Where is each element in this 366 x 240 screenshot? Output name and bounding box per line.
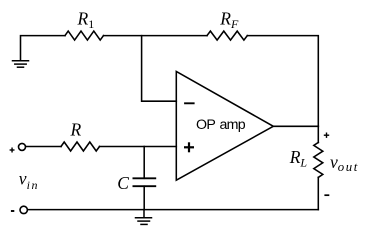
sign + at vout top	[324, 133, 329, 138]
resistor RF	[207, 31, 247, 40]
sign - at vout bottom	[324, 194, 329, 196]
wire top-right to right rail	[247, 36, 318, 127]
ground (top-left)	[13, 61, 29, 67]
sign - at input terminal	[11, 210, 14, 212]
svg-text:OP amp: OP amp	[196, 117, 246, 133]
op-amp minus input sign	[184, 102, 195, 104]
terminal - (input, open circle)	[20, 206, 27, 213]
wire R to op-amp plus input	[100, 146, 177, 148]
wire right rail below RL	[317, 177, 319, 209]
wire right rail above RL	[317, 126, 319, 142]
wire output	[273, 125, 318, 127]
wire top middle (R1 to RF)	[104, 35, 208, 37]
resistor R	[61, 142, 100, 151]
resistor RL	[314, 143, 323, 178]
svg-text:R: R	[70, 120, 82, 140]
wire noninverting input (terminal to R)	[26, 146, 61, 148]
ground (below capacitor)	[136, 210, 152, 225]
terminal + (input, open circle)	[19, 143, 26, 150]
sign + at input terminal	[10, 148, 15, 153]
svg-text:C: C	[117, 173, 129, 193]
capacitor C	[133, 147, 155, 210]
op-amp U1 triangle	[176, 71, 273, 180]
op-amp plus input sign	[184, 142, 194, 152]
wire inverting-input branch (junction down and right)	[142, 36, 177, 102]
wire top-left horizontal (ground corner to R1)	[21, 36, 66, 61]
wire bottom rail	[28, 209, 319, 211]
resistor R1	[65, 31, 104, 40]
